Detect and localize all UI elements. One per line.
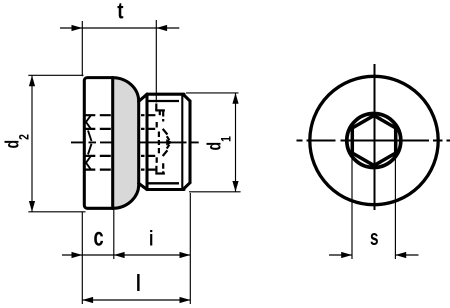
label d1: [204, 136, 234, 150]
thread crest lines: [147, 93, 184, 96]
dome arcs: [113, 78, 139, 102]
thread end chamfer diagonals: [183, 95, 190, 102]
label d2: [1, 134, 31, 148]
node B: hidden hex-socket lines (dashed) in thread zone: [141, 104, 169, 174]
thread start face: [145, 94, 148, 189]
dimension l: [82, 299, 190, 301]
outer circle (head d2): [310, 76, 438, 204]
thread root lines: [149, 94, 183, 189]
svg-text:i: i: [149, 226, 153, 250]
dimension d1: [186, 93, 241, 192]
dimension s: [329, 158, 419, 260]
vertical centerline: [374, 64, 376, 210]
dimension c and i: [62, 193, 190, 304]
thread start chamfer diagonals: [139, 94, 147, 101]
svg-text:s: s: [370, 226, 379, 251]
dimension t: [60, 20, 179, 103]
dimension d2: [28, 75, 85, 212]
dome fill (gray transition head to thread): [113, 78, 139, 209]
node D: socket entry cone marks at head face: [86, 116, 92, 169]
thread end chamfer boundary: [181, 94, 183, 189]
head/dome edge: [111, 78, 114, 209]
inner circle (socket bore): [347, 114, 401, 168]
hexagon socket: [352, 115, 395, 165]
thread end face: [188, 101, 191, 183]
wire: horizontal centerline of front view: [297, 64, 450, 210]
svg-text:t: t: [117, 0, 123, 24]
wire: centerline of side view: [71, 141, 199, 143]
node C: socket cone tip: [166, 139, 173, 145]
neck line: [137, 101, 140, 183]
head outline (cylindrical collar): [84, 78, 190, 209]
node A: hidden hex-socket lines (dashed) in head: [84, 115, 111, 169]
svg-text:c: c: [94, 222, 104, 251]
svg-text:l: l: [136, 271, 141, 297]
